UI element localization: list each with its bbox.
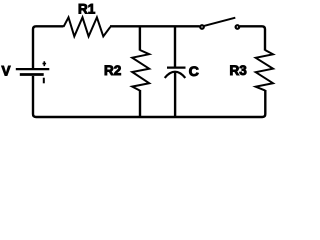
battery V bottom plate [20,73,44,76]
wire battery top to top-left corner to R1 [33,26,64,68]
switch left pole [200,25,204,29]
wire R1 to switch left pole [110,25,200,27]
wire switch to top-right corner down to R3 [240,26,265,50]
capacitor C bottom curved plate [165,72,186,78]
battery minus tick [43,78,45,84]
wire junction R2 stub [139,26,141,50]
switch right pole [236,25,240,29]
switch blade [203,18,235,27]
svg-text:R2: R2 [104,63,121,78]
resistor R1 [64,17,111,36]
resistor R2 [132,50,149,91]
svg-text:C: C [189,63,199,79]
resistor R3 [256,50,273,91]
wire C bottom [174,72,176,117]
wire R2 bottom [139,90,141,117]
capacitor C top plate [167,66,186,68]
wire R3 bottom, bottom wire, up to battery bottom [33,76,265,117]
wire junction C stub [174,26,176,66]
svg-text:V: V [2,64,11,79]
battery V top plate [16,68,50,70]
svg-text:R1: R1 [78,2,96,17]
battery plus sign [43,61,47,66]
svg-text:R3: R3 [230,63,248,78]
